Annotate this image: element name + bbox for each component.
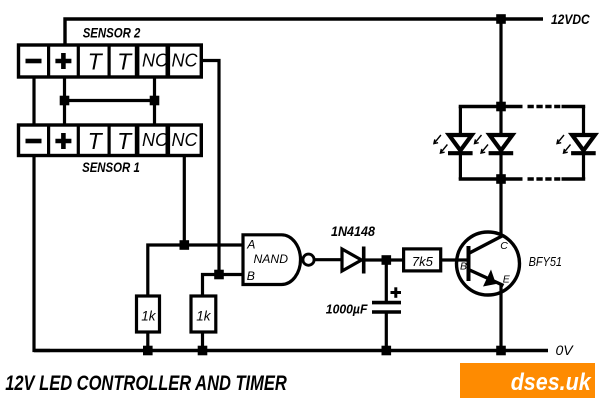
label sensor2 T T NC NC	[88, 49, 199, 75]
label sensor1 T T NC NC	[88, 128, 199, 154]
wire 7k5 to base	[441, 258, 467, 261]
svg-text:T: T	[117, 49, 133, 75]
LED bottom bus	[459, 177, 586, 180]
node junction cap/0V	[382, 346, 392, 356]
svg-text:NC: NC	[142, 130, 169, 150]
svg-text:0V: 0V	[556, 342, 575, 358]
LED D3 arrows	[475, 135, 489, 153]
svg-text:B: B	[247, 269, 255, 283]
terminal block SENSOR 1	[19, 125, 202, 156]
svg-text:E: E	[503, 274, 511, 286]
terminal block SENSOR 2	[19, 45, 202, 77]
wire sensor2 NC2 right and down to NAND input B	[202, 61, 219, 275]
node junction bottom bus	[496, 174, 506, 184]
svg-text:7k5: 7k5	[412, 254, 434, 269]
wire collector up to LED bus	[499, 179, 502, 237]
svg-text:NC: NC	[142, 51, 169, 71]
terminal SENSOR2 minus label	[26, 59, 42, 64]
resistor R1 1k	[137, 296, 160, 332]
node junction on 12VDC rail	[496, 14, 506, 24]
wire 12VDC top rail	[65, 19, 543, 45]
svg-text:dses.uk: dses.uk	[511, 369, 592, 396]
svg-text:B: B	[460, 260, 467, 272]
wire R2 to 0V rail	[201, 332, 204, 351]
wire emitter down to 0V rail	[499, 285, 502, 351]
logo dses.uk background	[460, 363, 595, 398]
svg-text:12VDC: 12VDC	[551, 11, 590, 27]
wire sensor2 plus to sensor1 plus	[63, 77, 66, 125]
resistor R3 7k5	[404, 249, 441, 271]
capacitor plus sign	[391, 287, 402, 298]
LED D2	[448, 107, 473, 180]
node junction diode/cap	[382, 255, 392, 265]
wire rail junction down to LED bus	[499, 19, 502, 107]
wire sensor1 NC2 down to NAND input A	[183, 156, 186, 246]
wire link plus column to NC1 column	[65, 99, 155, 102]
terminal SENSOR1 plus label	[55, 133, 71, 149]
wire sensor1 minus down to 0V rail	[34, 156, 50, 351]
node junction plus/link	[60, 96, 70, 106]
node junction NC1/link	[150, 96, 160, 106]
svg-text:NC: NC	[172, 130, 199, 150]
svg-text:BFY51: BFY51	[529, 254, 562, 269]
NAND output bubble	[303, 254, 314, 265]
capacitor C1 1000uF	[372, 260, 401, 351]
wire diode to 7k5	[365, 258, 404, 261]
terminal SENSOR2 plus label	[55, 53, 71, 69]
svg-text:1000µF: 1000µF	[326, 302, 368, 316]
LED D4	[571, 107, 596, 180]
node junction emitter/0V	[496, 346, 506, 356]
svg-text:NC: NC	[172, 51, 199, 71]
svg-text:C: C	[500, 240, 508, 252]
svg-text:T: T	[88, 128, 104, 154]
op-amp U1 NAND gate body	[243, 235, 301, 285]
svg-text:A: A	[246, 238, 255, 252]
svg-text:12V LED CONTROLLER AND TIMER: 12V LED CONTROLLER AND TIMER	[5, 372, 287, 395]
svg-text:T: T	[88, 49, 104, 75]
wire NAND output to diode	[314, 258, 342, 261]
transistor Q1 BFY51	[457, 232, 520, 295]
wire sensor2 NC1 to sensor1 NC1	[153, 77, 156, 125]
diode D1 1N4148	[342, 247, 364, 274]
svg-text:T: T	[117, 128, 133, 154]
wire 0V rail	[34, 349, 548, 352]
LED D2 arrows	[434, 135, 448, 153]
terminal SENSOR1 minus label	[26, 139, 42, 144]
svg-text:1N4148: 1N4148	[331, 224, 375, 239]
svg-text:1k: 1k	[141, 309, 157, 324]
wire NAND input A	[148, 245, 243, 296]
LED top bus	[459, 105, 586, 108]
node junction A-line	[180, 240, 190, 250]
node junction R1/0V	[143, 346, 153, 356]
svg-text:SENSOR 2: SENSOR 2	[83, 25, 141, 41]
node junction R2/0V	[198, 346, 208, 356]
LED D3	[489, 107, 514, 180]
node junction top bus	[496, 102, 506, 112]
LED D4 arrows	[557, 135, 571, 153]
resistor R2 1k	[191, 296, 216, 332]
wire sensor2 minus to sensor1 minus	[32, 77, 35, 125]
node junction B-line	[214, 270, 224, 280]
svg-text:1k: 1k	[196, 309, 212, 324]
wire NAND input B	[203, 275, 244, 297]
svg-text:SENSOR 1: SENSOR 1	[82, 159, 140, 175]
wire R1 to 0V rail	[146, 332, 149, 351]
svg-text:NAND: NAND	[254, 252, 289, 266]
